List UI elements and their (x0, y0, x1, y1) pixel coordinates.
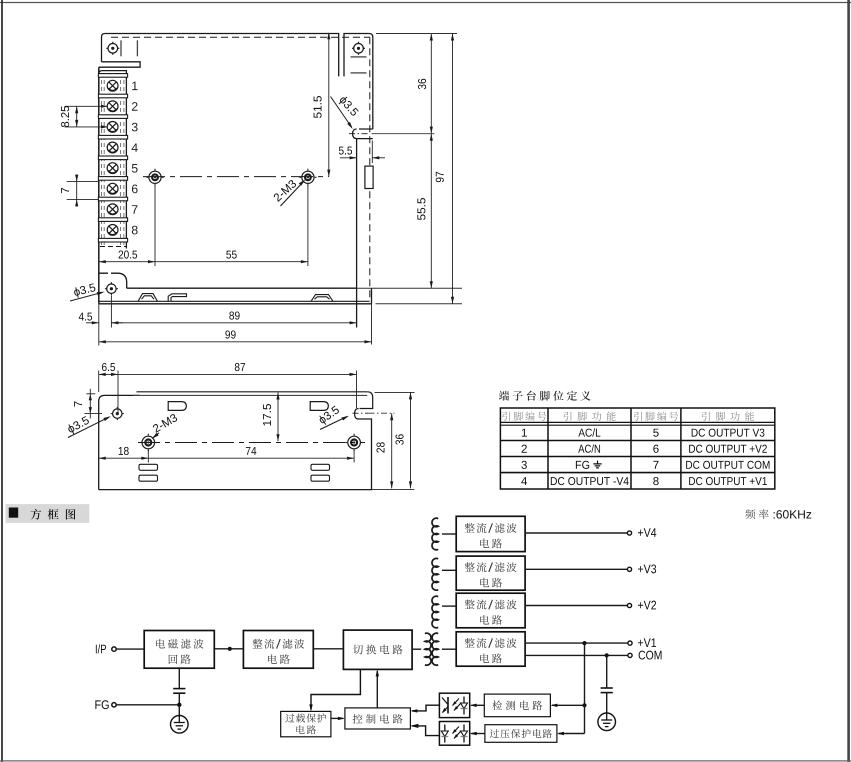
label +V1 (638, 638, 656, 647)
wire optocoupler 2 to control circuit with arrow (412, 726, 439, 736)
side dim 7 text (74, 401, 82, 406)
side dim 6.5 text (102, 363, 115, 371)
dim 4.5 text (79, 313, 92, 321)
optocoupler U2 light arrows (453, 727, 460, 734)
wire coil to +V2 block (442, 605, 456, 607)
table row 1 pin number left: 1 (522, 429, 527, 437)
side dim 18 74 line (99, 457, 354, 459)
table row 1 pin number right: 5 (653, 429, 658, 437)
dim 4.5 line and arrows (86, 322, 99, 324)
dim 8.25 line and arrows (76, 106, 78, 127)
optocoupler U1 box (439, 693, 469, 717)
side dim 7 line (89, 389, 91, 419)
side dim 18 text (119, 447, 129, 455)
wire switching to overload protection with arrow (311, 669, 360, 709)
wire capacitor to ground right (606, 693, 608, 713)
dim 97 line (452, 34, 454, 304)
wire COM junction down to capacitor (606, 655, 608, 688)
side view: louver slots bottom left (139, 464, 158, 470)
dim 55.5 text (417, 198, 425, 220)
ground symbol left (171, 716, 189, 734)
table row 4 pin number left: 4 (521, 477, 527, 485)
wire overload to control with arrow (331, 717, 343, 719)
dim 7 extension lines (67, 181, 99, 183)
terminal separator bar 7 (98, 197, 127, 201)
side dim ext: hole to top (117, 371, 119, 414)
dim 7 text (61, 188, 69, 193)
terminal separator bar 6 (98, 177, 127, 181)
side view: lip right rounded corner and notch (355, 392, 373, 419)
terminal screw 1 (107, 80, 118, 91)
table header double separator (500, 421, 774, 423)
terminal number 8 (132, 226, 138, 235)
section label: block diagram (6, 504, 90, 523)
dim 4.5 extension line below hole (110, 296, 112, 328)
block: overvoltage protection circuit (485, 725, 557, 743)
dim 20.5 55 extension lines from screws (154, 185, 156, 266)
block: overload protection circuit (281, 711, 331, 736)
wire +V3 output (525, 568, 627, 570)
table row 2 function left: AC/N (578, 444, 600, 452)
dim 97 text (436, 172, 444, 182)
label +V2 (638, 601, 656, 610)
side phi3.5 right label with leader (317, 405, 341, 426)
terminal screw 8 (107, 225, 118, 236)
wire I/P to EMI block (116, 648, 144, 650)
terminal block left edge / case left edge (98, 67, 100, 304)
side view: cover lip double line (137, 391, 368, 393)
terminal separator bar 2 (98, 94, 127, 98)
terminal block inner dashed rails (101, 73, 103, 246)
dim 55 line (155, 261, 308, 263)
top view: right tab mounting hole (354, 44, 364, 54)
table row 3 pin number left: 3 (521, 461, 526, 469)
wire junction down to ground left (178, 705, 180, 716)
table row 2 pin number right: 6 (653, 445, 658, 453)
top view: flange right edge (371, 288, 373, 304)
top view: 2-M3 screw left (149, 171, 161, 183)
wire +V1 junction down to detect node (584, 643, 586, 705)
terminal number 3 (132, 123, 138, 132)
side view: M3 screw left (142, 436, 155, 449)
side dim 6.5 and 87 line (99, 373, 357, 375)
dim 55.5 line (430, 134, 432, 289)
label +V3 (638, 564, 656, 573)
block: switching circuit (343, 630, 412, 669)
table header pin number col3 (634, 412, 678, 421)
dim 36 text (418, 79, 426, 89)
page top border line (0, 2, 851, 4)
wire optocoupler 1 to control circuit with arrow (412, 705, 439, 711)
dim 20.5 text (119, 250, 137, 258)
side dim 17.5 line (277, 393, 279, 442)
side view: right phi3.5 dash-dot extension for dim 28 (369, 412, 395, 414)
terminal separator bar 5 (98, 156, 127, 160)
table title: terminal pin definition (499, 391, 591, 401)
optocoupler U2 LED right (463, 725, 465, 732)
dim 7 line and arrows (76, 175, 78, 207)
frequency label 60KHz (745, 509, 768, 519)
side view: screws center dash-dot line (138, 442, 365, 444)
top view: right side vent slot (365, 166, 373, 188)
block: rectifier filter circuit +V3 (456, 556, 525, 590)
top view: left tab tick marks (120, 40, 122, 56)
wire node down to OVP with arrow (584, 705, 586, 733)
side dim 36 line (410, 392, 412, 488)
wire coil to +V4 block (442, 533, 456, 535)
terminal number 7 (132, 205, 138, 213)
dim 89 text (229, 311, 239, 319)
wire +V4 output (525, 532, 627, 534)
table row 4 function right: DC OUTPUT +V1 (689, 477, 767, 485)
terminal screw 4 (107, 142, 118, 153)
side dim 87 text (235, 363, 245, 371)
ground symbol right (598, 713, 616, 731)
table vertical borders (547, 408, 549, 489)
terminal separator bar 9 (98, 238, 127, 242)
side view: vent slot right (310, 402, 328, 411)
wire capacitor to FG node (178, 693, 180, 705)
side dim 74 text (246, 447, 256, 455)
side dim 28 line (391, 413, 393, 488)
page right border line (847, 0, 850, 762)
optocoupler U1 phototransistor (447, 697, 449, 714)
wire coil to +V3 block (442, 569, 456, 571)
top view: left tab mounting hole (108, 44, 118, 54)
terminal screw 7 (107, 204, 118, 215)
top view: case right edge below step (solid) (356, 139, 358, 328)
case left edge extension down to 99 dim (98, 304, 100, 346)
wire OVP to optocoupler 2 with arrow (471, 733, 485, 735)
input terminal I/P (96, 644, 106, 653)
terminal number 2 (132, 102, 138, 111)
wire +V1 output with junction (525, 642, 628, 644)
side dim 36 text (395, 434, 403, 444)
page bottom border line (0, 760, 851, 762)
dim 36 hole-center extension (372, 133, 435, 135)
dim 5.5 text and arrows (339, 147, 352, 155)
phi3.5 bottom left label with leader (73, 283, 96, 299)
block: control circuit (345, 708, 411, 729)
side dim 17.5 text (263, 404, 271, 426)
top view: bottom flange bend extension to dims (357, 287, 462, 289)
top view: bottom edge extension to dims (376, 303, 463, 305)
dim 51.5 line (328, 34, 330, 177)
table row 3 function left: FG with earth symbol (576, 461, 589, 469)
side view: vent slot left (168, 402, 186, 411)
optocoupler U1 light arrows (453, 699, 460, 706)
terminal screw 3 (107, 122, 118, 133)
terminal screw 6 (107, 183, 118, 194)
wire transformer secondary to +V1 rectifier (442, 648, 456, 650)
dim 89 line (111, 322, 356, 324)
dim 51.5 text (314, 96, 322, 118)
table row 4 pin number right: 8 (653, 477, 658, 485)
terminal number 4 (132, 143, 138, 151)
phi3.5 top right label with leader (337, 95, 359, 118)
side view: case outline (99, 395, 372, 489)
wire EMI down to capacitor (178, 668, 180, 688)
top view: bottom flange hole phi3.5 (107, 284, 116, 293)
transformer T1 secondary winding for +V1 (432, 633, 438, 665)
top view: bottom flange left raised edge (99, 273, 127, 288)
optocoupler U2 LED left (444, 725, 446, 732)
dim 36 top extension (376, 33, 457, 35)
terminal separator bar 4 (98, 135, 127, 139)
top view: half hole center dash (349, 133, 369, 135)
top view: hidden top edge (dashed) (111, 36, 370, 38)
dim 8.25 text (61, 106, 69, 127)
capacitor C1 left (173, 688, 185, 690)
top view: screws center dash-dot line (143, 176, 329, 178)
wire COM output with junction (525, 654, 628, 656)
transformer secondary winding for +V2 (432, 596, 438, 628)
wire detection to optocoupler 1 with arrow (471, 704, 484, 706)
side view: louver slots bottom right (311, 464, 330, 470)
terminal separator bar 3 (98, 115, 127, 119)
top view: flange louver 3 (311, 295, 333, 302)
side dim bottom ext (372, 489, 415, 491)
side dim ext lines from screws down (147, 450, 149, 463)
side view: top-left mounting hole (113, 409, 122, 418)
side 2-M3 label with leader (152, 413, 178, 433)
side view: M3 screw right (348, 436, 361, 449)
top view: bottom flange lower lines (99, 300, 370, 302)
block: EMI filter circuit (144, 631, 214, 669)
table row 2 function right: DC OUTPUT +V2 (689, 445, 767, 453)
top view: case top edge with cover tabs and notch (102, 34, 373, 130)
wire control to switching with arrow (376, 671, 378, 708)
terminal number 6 (132, 185, 138, 194)
side dim ext: right hole up (356, 371, 358, 409)
block: rectifier filter circuit +V1 (456, 632, 525, 666)
FG terminal (95, 700, 108, 709)
terminal number 1 (132, 82, 137, 90)
terminal block outline (99, 71, 127, 249)
terminal number 5 (132, 164, 138, 173)
dim 8.25 extension lines (65, 105, 107, 107)
dim 55 text (226, 251, 236, 259)
top view: flange louver 1 (138, 294, 158, 302)
transformer T1 primary winding (425, 633, 431, 665)
top view: 2-M3 label with leader (273, 179, 297, 202)
block: rectifier filter circuit +V4 (456, 516, 525, 551)
dim 36 line right (430, 34, 432, 134)
transformer secondary winding for +V4 (432, 518, 438, 550)
table row 2 pin number left: 2 (522, 445, 527, 453)
side dim 7 ext lines (86, 393, 95, 395)
table row 3 function right: DC OUTPUT COM (686, 461, 769, 469)
page left border line (1, 0, 3, 762)
top view: right tab tick marks (351, 56, 367, 58)
wire FG to junction (116, 704, 179, 706)
top view: left mounting tab bottom step (99, 62, 140, 67)
top view: hidden right edge (dashed) (369, 37, 371, 301)
table header pin function col2 (564, 412, 616, 421)
terminal screw 5 (107, 163, 118, 174)
table row 1 function left: AC/L (578, 428, 600, 436)
wire EMI to rectifier with junction (214, 648, 243, 650)
top view: bottom flange bend line (127, 287, 357, 289)
block: rectifier filter circuit +V2 (456, 593, 525, 628)
side dim ext: left edge up (98, 371, 100, 393)
wire node to detection circuit with arrow (552, 704, 585, 706)
wire +V2 output (525, 605, 627, 607)
table header pin number col1 (502, 412, 546, 421)
terminal separator bar 1 (98, 74, 127, 78)
transformer secondary winding for +V3 (432, 558, 438, 590)
table header pin function col4 (702, 412, 754, 421)
terminal separator bar 8 (98, 218, 127, 222)
side phi3.5 left label with leader (66, 415, 90, 435)
block: rectifier filter circuit main (243, 631, 313, 669)
dim 99 line (99, 341, 372, 343)
capacitor C2 right (601, 687, 613, 689)
table row 4 function left: DC OUTPUT -V4 (551, 477, 629, 485)
dim 99 text (225, 330, 235, 338)
dim 20.5 line (99, 261, 155, 263)
side dim 28 text (376, 442, 384, 452)
table row lines (500, 440, 774, 442)
terminal screw 2 (107, 101, 118, 112)
terminal block top dashed line (100, 73, 126, 75)
block: detection circuit (484, 694, 550, 717)
optocoupler U2 box (439, 722, 469, 746)
wire rectifier to switching (313, 648, 343, 650)
side view: phi3.5 half hole right (353, 412, 369, 414)
terminal block bottom dashed line (100, 246, 126, 248)
table outer border (500, 408, 774, 489)
top view: right edge step with phi3.5 half hole (353, 129, 373, 139)
top view: flange louver 2 hook (168, 294, 186, 302)
table row 1 function right: DC OUTPUT V3 (692, 429, 765, 437)
optocoupler U1 LED (463, 697, 465, 704)
label +V4 (638, 528, 656, 537)
side dim 36 top ext (375, 391, 415, 393)
table row 3 pin number right: 7 (653, 461, 658, 469)
top view: 2-M3 screw right (302, 171, 314, 183)
wire switching to transformer primary (412, 648, 421, 650)
label COM (639, 651, 662, 660)
